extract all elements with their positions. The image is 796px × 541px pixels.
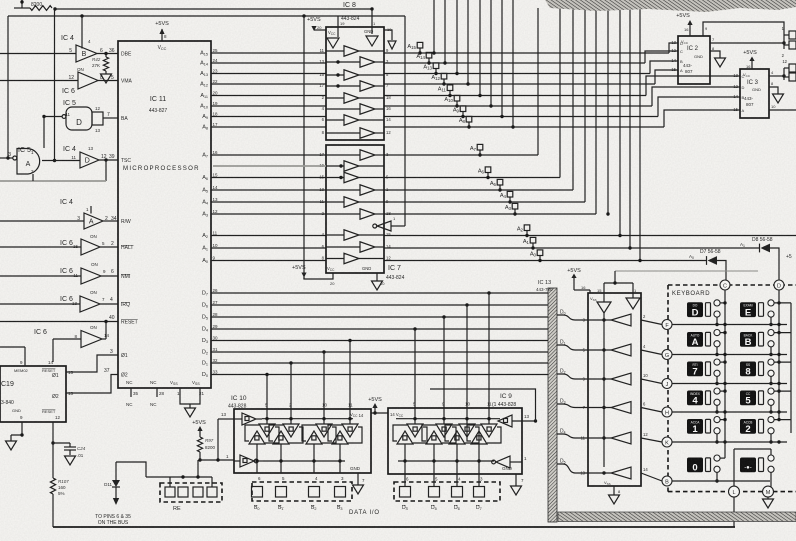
svg-text:ON: ON bbox=[90, 234, 97, 239]
wire IC13 row 6 output bbox=[588, 472, 611, 474]
wire keyboard row H bbox=[672, 411, 787, 413]
wire address bus A7 bbox=[211, 154, 326, 156]
svg-text:10: 10 bbox=[213, 243, 219, 248]
wire A12 riser to top bbox=[467, 0, 469, 84]
svg-text:+5VS: +5VS bbox=[155, 21, 169, 27]
svg-text:RESET: RESET bbox=[121, 320, 138, 326]
IC U9 443-828 bbox=[388, 408, 522, 474]
svg-text:Ø1: Ø1 bbox=[52, 373, 59, 379]
ground IC7 bbox=[372, 281, 383, 290]
svg-text:6: 6 bbox=[111, 269, 114, 275]
op-amp IC7 buffer row 4 bbox=[360, 185, 375, 196]
node C column circle bbox=[720, 280, 730, 290]
svg-text:IC 6: IC 6 bbox=[34, 329, 47, 336]
svg-text:19: 19 bbox=[213, 101, 219, 106]
wire address bus A14 bbox=[211, 62, 326, 64]
svg-text:KEYBOARD: KEYBOARD bbox=[672, 291, 710, 297]
svg-text:D11: D11 bbox=[104, 482, 112, 487]
svg-text:2: 2 bbox=[111, 241, 114, 247]
svg-text:H: H bbox=[665, 410, 669, 416]
op-amp IC9 tri-state pair 2 bbox=[436, 424, 452, 437]
svg-text:D: D bbox=[692, 307, 699, 318]
node row circle K bbox=[662, 437, 672, 447]
wire IC2 pin7 to pads bbox=[710, 42, 784, 44]
svg-text:15: 15 bbox=[386, 232, 391, 237]
node D column circle bbox=[774, 280, 784, 290]
svg-text:3-840: 3-840 bbox=[1, 400, 14, 406]
wire data bus D7 bbox=[211, 292, 548, 294]
wire to IC10 pin1 bbox=[200, 459, 234, 461]
wire IC13 row 4 input from keyboard bbox=[641, 408, 662, 413]
op-amp IC8 buffer row 2 bbox=[360, 57, 375, 68]
svg-text:ON: ON bbox=[91, 262, 98, 267]
svg-text:C19: C19 bbox=[1, 381, 14, 388]
svg-text:15: 15 bbox=[213, 173, 219, 178]
svg-text:13: 13 bbox=[221, 412, 227, 417]
svg-text:R97: R97 bbox=[205, 438, 214, 443]
svg-text:160: 160 bbox=[58, 485, 66, 490]
op-amp IC13 buffer 4 bbox=[611, 402, 631, 414]
wire IC13 top link bbox=[603, 283, 605, 302]
connector RE bbox=[160, 483, 222, 502]
wire IC9 internal rails bbox=[396, 418, 500, 420]
wire reset rail down with resistor R107 160 5% bbox=[52, 443, 54, 478]
wire L to bottom rail bbox=[733, 497, 735, 527]
wire keyboard column D bbox=[778, 290, 780, 420]
op-amp IC9 tri-state pair 3 bbox=[459, 424, 475, 437]
wire HALT output bbox=[100, 246, 118, 248]
wire VMA input bbox=[0, 80, 78, 82]
node A15 test point bbox=[417, 42, 423, 48]
svg-text:A8: A8 bbox=[459, 118, 466, 124]
wire IC13 row 2 input from keyboard bbox=[641, 350, 662, 355]
svg-text:+5VS: +5VS bbox=[567, 268, 581, 274]
wire address bus A8 bbox=[211, 126, 326, 128]
wire key contacts bbox=[774, 390, 791, 392]
svg-text:807: 807 bbox=[746, 102, 754, 107]
wire IC10 top pins to data drops bbox=[266, 408, 268, 410]
svg-text:16: 16 bbox=[213, 150, 219, 155]
clamp triangle IC13 b bbox=[626, 298, 640, 309]
wire address bus A15 bbox=[211, 52, 326, 54]
svg-text:DBE: DBE bbox=[121, 52, 132, 58]
wire address bus A6 bbox=[211, 177, 326, 179]
wire RESET buffer output bbox=[102, 338, 106, 340]
wire A13 riser to top bbox=[456, 0, 458, 74]
svg-text:19: 19 bbox=[340, 21, 345, 26]
op-amp IC10 tri-state pair 3 bbox=[316, 424, 332, 437]
svg-text:17: 17 bbox=[319, 152, 324, 157]
node A0 test point bbox=[537, 250, 543, 256]
wire key contacts bbox=[720, 332, 725, 334]
wire keyboard row B bbox=[672, 480, 770, 482]
svg-text:17: 17 bbox=[213, 122, 219, 127]
wire A10 riser to top bbox=[490, 0, 492, 106]
svg-text:A2: A2 bbox=[517, 226, 524, 232]
svg-text:Ø1: Ø1 bbox=[121, 353, 128, 359]
node A7 test point bbox=[477, 144, 483, 150]
svg-text:10: 10 bbox=[771, 104, 776, 109]
page edge hatch top right bbox=[545, 0, 796, 12]
svg-text:E: E bbox=[745, 307, 751, 318]
svg-text:K: K bbox=[665, 440, 669, 446]
svg-text:RE: RE bbox=[173, 506, 181, 512]
svg-text:A: A bbox=[26, 161, 31, 168]
wire NAND output to IC4 D bbox=[42, 160, 80, 162]
svg-text:12: 12 bbox=[671, 48, 676, 53]
svg-text:2: 2 bbox=[745, 424, 750, 435]
connector pad 13 bbox=[789, 73, 796, 81]
wire top rail y9 bbox=[53, 7, 56, 10]
op-amp IC9 tri-state pair 4 bbox=[481, 424, 497, 437]
key switch plus-minus bbox=[740, 458, 756, 473]
op-amp IC8 buffer row 7 bbox=[344, 115, 359, 126]
svg-text:IC 5: IC 5 bbox=[63, 100, 76, 107]
wire data bus D4 bbox=[211, 328, 548, 330]
wire D1 from edge connector bbox=[557, 345, 588, 350]
wire IC9 GND pin7 bbox=[515, 474, 517, 486]
svg-text:A: A bbox=[742, 108, 745, 113]
svg-text:11: 11 bbox=[348, 403, 353, 408]
svg-text:16: 16 bbox=[581, 285, 586, 290]
svg-text:IRQ: IRQ bbox=[121, 302, 130, 308]
svg-text:14: 14 bbox=[213, 185, 219, 190]
clamp triangle IC13 a bbox=[597, 302, 611, 313]
svg-text:5%: 5% bbox=[58, 491, 65, 496]
connector B0-B3 bbox=[252, 482, 352, 501]
svg-text:7: 7 bbox=[692, 367, 697, 378]
svg-text:L: L bbox=[732, 490, 735, 496]
svg-text:D8 56-58: D8 56-58 bbox=[752, 237, 773, 243]
svg-text:D: D bbox=[76, 118, 82, 127]
svg-text:0: 0 bbox=[692, 463, 697, 474]
ground IC3 bbox=[773, 94, 784, 103]
op-amp IC13 buffer 5 bbox=[611, 432, 631, 444]
svg-text:NC: NC bbox=[126, 402, 133, 407]
wire A9 riser to top bbox=[501, 0, 503, 117]
svg-text:IC 11: IC 11 bbox=[150, 96, 166, 103]
svg-text:14: 14 bbox=[386, 244, 391, 249]
svg-text:NMI: NMI bbox=[121, 274, 130, 280]
svg-text:IC 2: IC 2 bbox=[687, 46, 699, 52]
key switch 4 bbox=[687, 391, 703, 406]
svg-text:M: M bbox=[766, 490, 771, 496]
wire BA output bbox=[103, 117, 118, 119]
clamp GND triangle IC8 bbox=[366, 36, 378, 46]
svg-text:A3: A3 bbox=[505, 205, 512, 211]
svg-text:35: 35 bbox=[133, 391, 139, 396]
svg-text:28: 28 bbox=[213, 312, 219, 317]
svg-text:40: 40 bbox=[109, 315, 115, 321]
svg-text:16: 16 bbox=[684, 27, 689, 32]
node row circle H bbox=[662, 407, 672, 417]
svg-text:A: A bbox=[89, 218, 94, 225]
wire MEM02 to left edge bbox=[0, 346, 25, 348]
wire R/W output bbox=[103, 220, 118, 222]
wire IC3 pin10 to edge bbox=[769, 109, 796, 111]
wire gray line into IC7 pin19 bbox=[213, 165, 326, 167]
svg-text:13: 13 bbox=[319, 59, 324, 64]
IC U11 microprocessor 443-827 bbox=[118, 41, 211, 388]
wire IC3 GND pin8 bbox=[769, 87, 778, 94]
svg-text:39: 39 bbox=[109, 154, 115, 160]
wire A14 riser to top bbox=[444, 0, 446, 63]
svg-text:A11: A11 bbox=[438, 86, 447, 92]
op-amp IC9 output buffer pin13 bbox=[498, 415, 512, 427]
svg-text:A12: A12 bbox=[431, 75, 440, 81]
wire IC13 row 2 output bbox=[588, 349, 611, 351]
svg-text:11: 11 bbox=[487, 402, 492, 407]
wire keyboard row J bbox=[672, 383, 787, 385]
svg-text:NC: NC bbox=[126, 380, 133, 385]
wire address bus A2 bbox=[211, 235, 326, 237]
svg-text:C: C bbox=[742, 74, 745, 79]
svg-text:26: 26 bbox=[213, 288, 219, 293]
svg-text:13: 13 bbox=[733, 73, 738, 78]
IC U3 443-807 bbox=[740, 69, 769, 118]
key switch 2 bbox=[740, 419, 756, 434]
svg-text:IC 6: IC 6 bbox=[60, 268, 73, 275]
svg-text:28: 28 bbox=[159, 391, 165, 396]
svg-text:12: 12 bbox=[386, 130, 391, 135]
svg-text:29: 29 bbox=[213, 324, 219, 329]
svg-text:14: 14 bbox=[733, 94, 738, 99]
svg-text:B: B bbox=[665, 479, 669, 485]
wire phi1 to MPU pin3 bbox=[66, 355, 118, 372]
wire A8 riser to top bbox=[512, 0, 514, 127]
svg-text:13: 13 bbox=[319, 187, 324, 192]
svg-text:MEM02: MEM02 bbox=[14, 368, 29, 373]
svg-text:Ø2: Ø2 bbox=[52, 394, 59, 400]
svg-text:443-828: 443-828 bbox=[228, 404, 247, 410]
svg-text:A4: A4 bbox=[500, 193, 507, 199]
wire HALT input bbox=[0, 246, 81, 248]
wire key contacts bbox=[774, 419, 791, 421]
wire GND drop IC8 bbox=[371, 9, 373, 34]
svg-text:A0: A0 bbox=[530, 251, 537, 257]
svg-text:13: 13 bbox=[95, 128, 101, 133]
wire address bus A12 bbox=[211, 83, 326, 85]
svg-text:GND: GND bbox=[350, 466, 361, 471]
svg-text:24: 24 bbox=[213, 58, 219, 63]
node row circle G bbox=[662, 350, 672, 360]
svg-text:10: 10 bbox=[465, 402, 471, 407]
op-amp IC10 enable buffer pin1 bbox=[240, 455, 254, 467]
wire TSC output bbox=[99, 159, 118, 161]
svg-text:14: 14 bbox=[643, 467, 648, 472]
svg-text:5: 5 bbox=[745, 396, 751, 407]
op-amp IC10 tri-state pair 1 bbox=[259, 424, 275, 437]
wire RESET pin12 down bbox=[52, 422, 54, 443]
svg-text:12: 12 bbox=[782, 59, 787, 64]
key switch 8 bbox=[740, 362, 756, 377]
svg-text:A: A bbox=[680, 68, 683, 73]
capacitor C24 .01 bbox=[53, 442, 70, 444]
op-amp IC10 tri-state pair 4 bbox=[342, 424, 358, 437]
svg-text:GND: GND bbox=[362, 266, 371, 271]
svg-text:7: 7 bbox=[107, 112, 110, 118]
svg-text:G: G bbox=[665, 353, 669, 359]
wire NAND pin2 drop bbox=[32, 174, 34, 181]
wire data bus D5 bbox=[211, 316, 548, 318]
svg-text:RESET: RESET bbox=[42, 409, 56, 414]
op-amp IC8 buffer row 8 bbox=[360, 128, 375, 139]
svg-text:8: 8 bbox=[745, 367, 750, 378]
svg-text:+5VS: +5VS bbox=[676, 13, 690, 19]
svg-text:(1 443-828: (1 443-828 bbox=[492, 402, 516, 408]
wire key contacts bbox=[774, 302, 791, 304]
wire RESET buffer input from IC19 bbox=[53, 338, 81, 340]
wire key contacts bbox=[720, 302, 725, 304]
svg-text:HALT: HALT bbox=[121, 245, 133, 251]
svg-text:15: 15 bbox=[733, 107, 738, 112]
svg-text:25: 25 bbox=[213, 48, 219, 53]
wire IC19 GND pin bbox=[11, 422, 22, 435]
clamp Vcc triangle IC8 bbox=[327, 38, 339, 48]
svg-text:443-824: 443-824 bbox=[386, 275, 405, 281]
resistor R97 8200 bbox=[197, 437, 202, 452]
op-amp IC13 buffer 2 bbox=[611, 344, 631, 356]
op-amp IC7 reverse buffer bbox=[377, 221, 391, 231]
wire vertical x82 to IC4 pin4 bbox=[80, 14, 83, 17]
wire A15 riser to top bbox=[433, 0, 435, 53]
op-amp IC7 buffer row 7 bbox=[344, 230, 359, 241]
svg-text:13: 13 bbox=[88, 146, 94, 151]
wire key contacts bbox=[774, 361, 791, 363]
key switch 5 bbox=[740, 391, 756, 406]
wire IC13 row 3 output bbox=[588, 378, 611, 380]
wire D2 from edge connector bbox=[557, 374, 588, 379]
svg-text:B: B bbox=[82, 51, 87, 58]
op-amp IC7 buffer row 6 bbox=[360, 209, 375, 220]
svg-text:807: 807 bbox=[685, 69, 693, 74]
svg-text:1: 1 bbox=[692, 424, 698, 435]
wire VMA output bbox=[98, 80, 118, 82]
IC U10 443-828 bbox=[234, 409, 371, 473]
wire NMI output bbox=[101, 275, 118, 277]
key switch B bbox=[740, 332, 756, 347]
svg-text:12: 12 bbox=[55, 415, 61, 420]
svg-text:14: 14 bbox=[48, 360, 54, 365]
key switch 7 bbox=[687, 362, 703, 377]
svg-text:GND: GND bbox=[364, 29, 373, 34]
svg-text:10: 10 bbox=[643, 373, 648, 378]
node L circle bbox=[729, 486, 740, 497]
svg-text:GND: GND bbox=[694, 54, 703, 59]
svg-text:B: B bbox=[680, 59, 683, 64]
wire IC2 pin9 loop bbox=[703, 22, 784, 36]
op-amp IC8 buffer row 5 bbox=[344, 93, 359, 104]
svg-text:11: 11 bbox=[320, 199, 325, 204]
svg-text:14: 14 bbox=[386, 117, 391, 122]
op-amp IC7 buffer row 5 bbox=[344, 197, 359, 208]
svg-text:4: 4 bbox=[692, 396, 698, 407]
svg-text:VMA: VMA bbox=[121, 79, 133, 85]
resistor R41 8200 top-left bbox=[14, 7, 30, 9]
wire address bus A11 bbox=[211, 95, 326, 97]
svg-text:VCC 14: VCC 14 bbox=[350, 412, 364, 418]
svg-text:20: 20 bbox=[330, 281, 335, 286]
svg-text:NC: NC bbox=[150, 380, 157, 385]
wire data bus D3 bbox=[211, 340, 548, 342]
wire keyboard right vertical bbox=[790, 303, 792, 433]
ground IC2 bbox=[715, 58, 726, 67]
svg-text:11: 11 bbox=[71, 155, 76, 160]
op-amp IC8 buffer row 4 bbox=[360, 81, 375, 92]
op-amp IC7 buffer row 1 bbox=[360, 150, 375, 161]
svg-text:14: 14 bbox=[104, 333, 110, 338]
wire D3 from edge connector bbox=[557, 404, 588, 408]
svg-text:13: 13 bbox=[524, 414, 530, 419]
wire keyboard row K bbox=[672, 441, 787, 443]
svg-text:14: 14 bbox=[671, 58, 676, 63]
wire B output to DBE bbox=[97, 53, 118, 55]
wire keyboard row G bbox=[672, 354, 787, 356]
IC U2 443-807 bbox=[678, 36, 710, 84]
svg-text:11: 11 bbox=[65, 112, 70, 117]
wire address bus A13 bbox=[211, 73, 326, 75]
svg-text:A9: A9 bbox=[453, 107, 460, 113]
wire address bus A9 bbox=[211, 116, 326, 118]
wire address bus A0 bbox=[211, 260, 326, 262]
svg-text:8200: 8200 bbox=[205, 445, 216, 450]
op-amp IC10 tri-state pair 2 bbox=[283, 424, 299, 437]
op-amp IC10 input buffer pin13 bbox=[242, 413, 256, 425]
svg-text:R/W: R/W bbox=[121, 219, 131, 225]
connector edge bus bar bbox=[548, 288, 557, 522]
wire keyboard column C bbox=[724, 290, 726, 458]
ground IC10 bbox=[353, 485, 364, 494]
wire IC9 pin13 riser loop bbox=[430, 389, 536, 421]
svg-text:R42: R42 bbox=[92, 57, 101, 62]
wire address bus A3 bbox=[211, 213, 326, 215]
wire IC8 outer loop right leg bbox=[337, 15, 405, 17]
svg-text:GND: GND bbox=[502, 466, 513, 471]
svg-text:IC 4: IC 4 bbox=[63, 146, 76, 153]
wire key contacts bbox=[774, 332, 791, 334]
svg-text:12: 12 bbox=[213, 209, 219, 214]
wire address bus A5 bbox=[211, 189, 326, 191]
connector D4-D7 bbox=[394, 482, 500, 501]
op-amp IC8 buffer row 6 bbox=[360, 104, 375, 115]
wire IC13 row 3 input from keyboard bbox=[641, 379, 662, 384]
svg-text:GND: GND bbox=[752, 87, 761, 92]
wire RESET rail y321.5 bbox=[0, 321, 118, 323]
svg-text:IC 4: IC 4 bbox=[61, 35, 74, 42]
keyboard enclosure dashed box bbox=[668, 284, 796, 286]
wire R/W input bbox=[0, 220, 84, 222]
IC U7 buffer array 443-824 bbox=[326, 145, 384, 273]
svg-text:A13: A13 bbox=[423, 64, 432, 70]
op-amp IC7 buffer row 8 bbox=[360, 242, 375, 253]
svg-text:IC 9: IC 9 bbox=[500, 393, 512, 400]
wire IC2 GND pin8 bbox=[710, 51, 720, 58]
svg-text:C24: C24 bbox=[77, 446, 86, 451]
op-amp IC13 buffer 3 bbox=[611, 373, 631, 385]
svg-text:+5VS: +5VS bbox=[192, 420, 206, 426]
svg-text:443-827: 443-827 bbox=[149, 108, 168, 114]
page edge hatch bottom right bbox=[558, 512, 796, 522]
svg-text:A7: A7 bbox=[470, 146, 477, 152]
svg-text:GND: GND bbox=[12, 408, 21, 413]
node A10 test point bbox=[454, 95, 460, 101]
wire IC13 row 1 output bbox=[588, 319, 611, 321]
node A6 test point bbox=[485, 167, 491, 173]
wire gray rail y181 bbox=[0, 180, 106, 182]
wire vertical x54 long drop bbox=[54, 10, 56, 161]
wire IC3 pin4 to pads bbox=[769, 75, 784, 77]
node A3 test point bbox=[512, 203, 518, 209]
